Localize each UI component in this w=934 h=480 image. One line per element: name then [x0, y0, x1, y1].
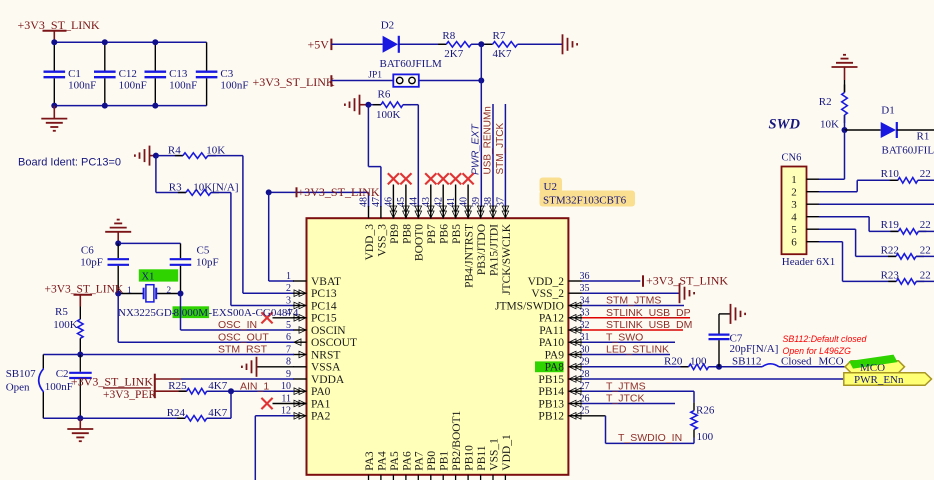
junction — [152, 39, 158, 45]
pin 39 PB3/JTDO — [480, 206, 482, 218]
wire T_SWDIO_IN — [568, 415, 605, 417]
svg-text:JP1: JP1 — [368, 71, 382, 81]
wire STM_JTCK pin 37 — [504, 104, 506, 207]
svg-text:T_SWDIO_IN: T_SWDIO_IN — [618, 432, 682, 444]
junction crystal top — [115, 240, 121, 246]
svg-text:PC15: PC15 — [311, 313, 337, 325]
svg-text:PA11: PA11 — [539, 325, 564, 337]
junction R6 — [365, 102, 371, 108]
svg-text:PA4: PA4 — [376, 451, 388, 471]
junction +3V3/VBAT — [266, 189, 272, 195]
ground (R2) — [832, 66, 858, 68]
svg-text:NRST: NRST — [311, 349, 340, 361]
pin 35 VSS_2 — [568, 292, 582, 294]
svg-text:7: 7 — [286, 344, 291, 355]
no-connect X pins top — [392, 185, 394, 219]
svg-text:10: 10 — [281, 381, 291, 392]
wire R2 to CN6 pin1 — [844, 130, 846, 179]
value STM32F103CBT6 — [540, 191, 636, 207]
pin 31 PA10 — [568, 341, 582, 343]
svg-text:35: 35 — [580, 283, 590, 294]
ground (crystal) — [105, 231, 131, 233]
ground (VSS_2) — [679, 283, 681, 303]
svg-text:R10: R10 — [881, 168, 900, 180]
ground (R6) — [359, 95, 361, 115]
pin 45 PB8 — [405, 206, 407, 218]
svg-text:OSC_OUT: OSC_OUT — [218, 331, 269, 343]
svg-text:VDD_3: VDD_3 — [364, 224, 376, 261]
svg-text:8.000M: 8.000M — [174, 307, 209, 319]
junction AIN_1 — [228, 388, 234, 394]
CN6 pin 2 — [807, 191, 820, 193]
svg-text:22: 22 — [920, 269, 931, 281]
wire CN6 pin5 to R22 — [819, 228, 856, 230]
svg-text:100nF: 100nF — [220, 80, 248, 92]
wire to R25 — [155, 390, 187, 392]
svg-text:STM_JTMS: STM_JTMS — [606, 295, 661, 307]
svg-text:PB9: PB9 — [389, 224, 401, 244]
junction R5 — [77, 352, 83, 358]
svg-text:100nF: 100nF — [45, 381, 73, 393]
pin 2 PC13 — [293, 292, 307, 294]
designator U2 — [540, 178, 563, 194]
wire STM_USB_RENUMn pin 38 — [492, 104, 494, 207]
capacitor C3 — [206, 42, 208, 70]
svg-text:PC13: PC13 — [311, 288, 337, 300]
svg-text:2: 2 — [791, 187, 797, 199]
svg-text:OSCIN: OSCIN — [311, 325, 346, 337]
junction R8/R7 — [478, 41, 484, 47]
svg-text:MCO: MCO — [819, 355, 844, 367]
pin 9 VDDA — [293, 378, 307, 380]
pin 29 PA8 — [568, 366, 582, 368]
pin 30 PA9 — [568, 354, 582, 356]
wire LED_STLINK — [582, 354, 670, 356]
svg-text:+3V3_ST_LINK: +3V3_ST_LINK — [298, 185, 380, 199]
wire STLINK_USB_DM — [582, 329, 683, 331]
svg-text:T_JTCK: T_JTCK — [606, 393, 645, 405]
svg-text:PA1: PA1 — [311, 398, 331, 410]
svg-text:JTMS/SWDIO: JTMS/SWDIO — [495, 300, 564, 312]
svg-text:10K: 10K — [820, 119, 839, 131]
wire to R3 — [155, 156, 157, 193]
svg-text:+3V3_ST_LINK: +3V3_ST_LINK — [253, 75, 335, 89]
svg-text:R22: R22 — [881, 244, 899, 256]
pin 11 PA1 — [293, 403, 307, 405]
wire R10 out — [918, 179, 934, 181]
svg-text:T_JTMS: T_JTMS — [606, 380, 646, 392]
svg-text:PA15/JTDI: PA15/JTDI — [488, 224, 500, 276]
svg-text:C12: C12 — [119, 68, 137, 80]
wire STM_JTMS — [582, 305, 684, 307]
svg-text:3: 3 — [286, 295, 291, 306]
pin 40 PB4/JNTRST — [467, 206, 469, 218]
svg-text:4K7: 4K7 — [208, 380, 227, 392]
resistor R19 — [890, 230, 898, 232]
svg-text:JTCK/SWCLK: JTCK/SWCLK — [501, 223, 513, 295]
pin 46 PB9 — [392, 206, 394, 218]
svg-text:STM32F103CBT6: STM32F103CBT6 — [543, 195, 627, 207]
svg-text:R1: R1 — [917, 131, 930, 143]
svg-text:2: 2 — [166, 286, 171, 296]
highlight MCO — [849, 355, 898, 369]
wire T_SWO — [582, 341, 675, 343]
svg-text:48: 48 — [359, 197, 370, 207]
svg-text:PB14: PB14 — [538, 386, 564, 398]
junction C7 — [716, 364, 722, 370]
svg-text:PB1: PB1 — [439, 451, 451, 471]
junction crystal right — [178, 291, 184, 297]
wire STM_RST row — [80, 354, 294, 356]
svg-text:PA0: PA0 — [311, 386, 331, 398]
pin 27 PB14 — [568, 390, 582, 392]
svg-text:10K[N/A]: 10K[N/A] — [193, 182, 238, 194]
junction crystal left — [115, 291, 121, 297]
svg-text:VBAT: VBAT — [311, 276, 341, 288]
wire R8-R7 — [471, 43, 492, 45]
pin 1 VBAT — [293, 280, 307, 282]
svg-text:2K7: 2K7 — [444, 48, 463, 60]
diode D1 — [845, 129, 881, 131]
op IC U2 body — [307, 218, 569, 475]
wire R20 to SB112 — [709, 366, 762, 368]
power port +3V3_PER — [103, 387, 151, 389]
svg-text:R19: R19 — [881, 219, 900, 231]
wire PWR_EXT vertical to pin 39 — [480, 44, 482, 207]
svg-text:STM_JTCK: STM_JTCK — [495, 123, 506, 175]
junction — [102, 39, 108, 45]
highlight X1 — [139, 269, 178, 281]
svg-text:C6: C6 — [81, 245, 94, 257]
resistor R8 — [438, 43, 446, 45]
svg-text:PB15: PB15 — [538, 374, 564, 386]
pin 5 OSCIN — [293, 329, 307, 331]
pin 36 VDD_2 — [568, 280, 582, 282]
svg-text:VDD_2: VDD_2 — [528, 276, 565, 288]
wire CN6 pin4 to R19 — [819, 216, 869, 218]
CN6 pin 4 — [807, 216, 820, 218]
svg-text:BAT60JFILM: BAT60JFILM — [882, 145, 934, 157]
wire CN6 pin2 to R10 — [819, 191, 857, 193]
pin 26 PB13 — [568, 403, 582, 405]
capacitor C1 — [53, 42, 55, 70]
power port +3V3_ST_LINK (VDD_2) — [642, 275, 644, 287]
svg-text:8: 8 — [286, 357, 291, 368]
svg-text:22: 22 — [920, 168, 931, 180]
svg-text:C5: C5 — [197, 245, 210, 257]
pin 25 PB12 — [568, 415, 582, 417]
CN6 pin 5 — [807, 228, 820, 230]
svg-text:+3V3_ST_LINK: +3V3_ST_LINK — [45, 284, 124, 296]
ground (C2) — [79, 418, 81, 428]
pin 4 PC15 — [293, 317, 307, 319]
wire bottom rail — [43, 417, 185, 419]
capacitor C5 — [180, 243, 182, 258]
wire +5V to D2 — [331, 43, 382, 45]
svg-text:11: 11 — [281, 393, 291, 404]
svg-text:5: 5 — [791, 224, 797, 236]
junction R2/D1 — [842, 127, 848, 133]
svg-text:Open: Open — [6, 381, 30, 393]
value NX3225GD-8.000M-EXS00A-CG04874 — [173, 306, 210, 318]
svg-text:R25: R25 — [168, 380, 187, 392]
svg-text:+3V3_ST_LINK: +3V3_ST_LINK — [646, 274, 728, 288]
wire crystal top — [118, 242, 180, 244]
svg-text:+5V: +5V — [308, 38, 330, 52]
svg-text:C3: C3 — [220, 68, 233, 80]
svg-text:D2: D2 — [381, 20, 394, 32]
svg-text:1: 1 — [127, 286, 132, 296]
svg-text:1: 1 — [791, 174, 797, 186]
wire D1 to R1 — [897, 129, 934, 131]
svg-text:39: 39 — [471, 197, 482, 207]
svg-text:22: 22 — [920, 219, 931, 231]
svg-text:6: 6 — [286, 332, 291, 343]
svg-text:10pF: 10pF — [196, 257, 219, 269]
CN6 pin 1 — [807, 178, 820, 180]
svg-text:SWD: SWD — [769, 117, 801, 133]
wire R6 gnd to VSS_3 pin 47 — [367, 105, 369, 167]
svg-text:PA9: PA9 — [545, 349, 565, 361]
wire R19 out — [918, 230, 934, 232]
wire to VBAT pin 1 — [268, 192, 270, 281]
svg-text:PB7: PB7 — [426, 224, 438, 244]
svg-text:SB112:Default closed: SB112:Default closed — [783, 334, 868, 344]
junction C2 bottom — [77, 415, 83, 421]
wire bottom rail — [54, 105, 206, 107]
svg-text:VDDA: VDDA — [311, 374, 345, 386]
svg-text:R7: R7 — [493, 30, 506, 42]
resistor R24 — [177, 417, 185, 419]
svg-text:PWR_ENn: PWR_ENn — [854, 374, 904, 386]
svg-text:12: 12 — [281, 406, 291, 417]
svg-text:Header 6X1: Header 6X1 — [782, 256, 835, 268]
wire R7 to ground — [518, 43, 563, 45]
resistor R2 — [844, 80, 846, 93]
svg-text:38: 38 — [483, 197, 494, 207]
svg-text:100nF: 100nF — [119, 80, 147, 92]
svg-text:+3V3_ST_LINK: +3V3_ST_LINK — [71, 375, 153, 389]
wire CN6 pin6 to R23 — [819, 241, 843, 243]
ground (R7) — [562, 34, 564, 54]
crystal X1 — [118, 293, 143, 295]
svg-text:VSS_3: VSS_3 — [376, 224, 388, 257]
svg-text:USB_RENUMn: USB_RENUMn — [483, 106, 494, 174]
power port +3V3_ST_LINK (VDD_3) — [296, 187, 298, 197]
svg-text:4: 4 — [791, 212, 797, 224]
svg-text:VSS_2: VSS_2 — [531, 288, 564, 300]
pin 48 VDD_3 — [368, 206, 370, 218]
wire CN6 pin3 out — [819, 203, 934, 205]
svg-text:44: 44 — [409, 197, 420, 207]
svg-text:OSCOUT: OSCOUT — [311, 337, 357, 349]
port PWR_ENn — [844, 373, 932, 386]
port MCO — [845, 361, 905, 373]
pin 12 PA2 — [293, 415, 307, 417]
solder bridge SB107 — [39, 369, 44, 393]
svg-text:VSS_1: VSS_1 — [488, 438, 500, 471]
wire R3 to PC14 — [211, 192, 231, 194]
resistor R25 — [179, 390, 187, 392]
svg-text:36: 36 — [580, 271, 590, 282]
resistor R22 — [888, 255, 896, 257]
svg-text:6: 6 — [791, 237, 797, 249]
resistor R7 — [485, 43, 493, 45]
svg-text:PA2: PA2 — [311, 411, 331, 423]
svg-text:22: 22 — [920, 244, 931, 256]
svg-text:PA3: PA3 — [364, 451, 376, 471]
pin 34 JTMS/SWDIO — [568, 305, 582, 307]
svg-text:R8: R8 — [442, 30, 455, 42]
no-connect X PC15 — [273, 317, 307, 319]
wire R6 to BOOT0 pin 44 — [403, 104, 418, 106]
resistor R4 — [156, 155, 183, 157]
wire SB107 left — [43, 354, 80, 356]
solder bridge SB112 — [762, 364, 779, 367]
svg-text:PB6: PB6 — [439, 224, 451, 244]
ground (R4) — [149, 146, 151, 166]
junction JP1/PWR_EXT — [478, 78, 484, 84]
svg-text:AIN_1: AIN_1 — [240, 380, 269, 392]
wire +3V3 to pin 48 — [269, 191, 369, 193]
wire PA8 to R20 — [582, 366, 689, 368]
svg-text:R26: R26 — [696, 405, 715, 417]
wire STLINK_USB_DP — [582, 317, 690, 319]
pin 6 OSCOUT — [293, 341, 307, 343]
svg-text:PA8: PA8 — [545, 362, 565, 374]
pin 28 PB15 — [568, 378, 582, 380]
svg-text:PB4/JNTRST: PB4/JNTRST — [464, 224, 476, 288]
diode D2 — [383, 36, 398, 53]
wire PA2 down — [255, 415, 294, 417]
ground (C7) — [730, 304, 732, 324]
resistor R20 — [681, 366, 689, 368]
wire VDD_2 — [582, 280, 640, 282]
svg-text:PB12: PB12 — [538, 411, 564, 423]
svg-text:PB5: PB5 — [451, 224, 463, 244]
wire VSS_2 — [582, 292, 679, 294]
wire T_JTCK — [582, 403, 675, 405]
svg-text:PB13: PB13 — [538, 398, 564, 410]
wire PWR_ENn — [582, 378, 844, 380]
svg-text:PB8: PB8 — [401, 224, 413, 244]
svg-text:100: 100 — [690, 355, 707, 367]
svg-text:STLINK_USB_DP: STLINK_USB_DP — [606, 307, 691, 319]
svg-text:20pF[N/A]: 20pF[N/A] — [730, 343, 779, 355]
svg-text:PB3/JTDO: PB3/JTDO — [476, 224, 488, 275]
wire SB112 to MCO port — [779, 366, 845, 368]
svg-text:R6: R6 — [378, 89, 391, 101]
svg-text:LED_STLINK: LED_STLINK — [606, 344, 669, 356]
svg-text:2: 2 — [286, 283, 291, 294]
resistor R23 — [888, 280, 896, 282]
svg-text:100nF: 100nF — [68, 80, 96, 92]
wire R23 out — [916, 280, 934, 282]
svg-text:4K7: 4K7 — [208, 407, 227, 419]
pin 8 VSSA — [293, 366, 307, 368]
svg-text:PA6: PA6 — [401, 451, 413, 471]
svg-text:R5: R5 — [55, 306, 68, 318]
svg-text:Closed: Closed — [781, 355, 812, 367]
svg-text:R24: R24 — [167, 407, 186, 419]
svg-text:PB2/BOOT1: PB2/BOOT1 — [451, 410, 463, 470]
svg-text:100K: 100K — [376, 109, 401, 121]
svg-text:PB10: PB10 — [464, 445, 476, 471]
svg-text:X1: X1 — [142, 272, 155, 283]
pin 3 PC14 — [293, 305, 307, 307]
pin 41 PB5 — [455, 206, 457, 218]
wire D2 to R8 — [399, 43, 447, 45]
pin 7 NRST — [293, 354, 307, 356]
svg-text:C13: C13 — [169, 68, 188, 80]
wire R24 to AIN_1 — [207, 417, 231, 419]
pin 37 JTCK/SWCLK — [504, 206, 506, 218]
svg-text:SB112: SB112 — [732, 355, 762, 367]
wire T_JTMS — [582, 390, 694, 392]
resistor R6 — [368, 104, 381, 106]
svg-text:PA5: PA5 — [389, 451, 401, 471]
wire VDDA — [155, 378, 181, 380]
svg-text:BOOT0: BOOT0 — [414, 224, 426, 261]
pin 33 PA12 — [568, 317, 582, 319]
svg-text:R3: R3 — [169, 182, 182, 194]
wire AIN_1 — [207, 390, 294, 392]
capacitor C7 — [718, 340, 720, 367]
svg-text:37: 37 — [496, 197, 507, 207]
svg-text:3: 3 — [791, 199, 797, 211]
svg-text:9: 9 — [286, 369, 291, 380]
svg-text:10pF: 10pF — [80, 257, 103, 269]
wire OSC_IN — [180, 294, 182, 331]
svg-text:T_SWO: T_SWO — [606, 331, 643, 343]
svg-text:PB11: PB11 — [476, 445, 488, 470]
capacitor C13 — [154, 42, 156, 70]
svg-text:R20: R20 — [664, 355, 683, 367]
pin 47 VSS_3 — [380, 206, 382, 218]
pin 43 PB7 — [430, 206, 432, 218]
svg-text:C1: C1 — [68, 68, 81, 80]
svg-text:+3V3_PER: +3V3_PER — [103, 389, 156, 401]
svg-text:PB0: PB0 — [426, 451, 438, 471]
ground (VSSA) — [257, 366, 294, 368]
svg-text:CN6: CN6 — [782, 153, 802, 164]
svg-text:PC14: PC14 — [311, 300, 337, 312]
wire R22 out — [916, 255, 934, 257]
capacitor C6 — [117, 243, 119, 258]
svg-text:Open for L496ZG: Open for L496ZG — [783, 346, 852, 356]
svg-text:100nF: 100nF — [169, 80, 197, 92]
junction — [51, 39, 57, 45]
pin 44 BOOT0 — [417, 206, 419, 218]
svg-text:-EXS00A-CG04874: -EXS00A-CG04874 — [209, 307, 299, 319]
svg-text:OSC_IN: OSC_IN — [218, 319, 257, 331]
junction R4 — [153, 153, 159, 159]
wire JP1 to PWR_EXT — [419, 80, 482, 82]
no-connect X PA1 — [273, 403, 307, 405]
svg-text:PA12: PA12 — [539, 313, 564, 325]
svg-text:PA7: PA7 — [414, 451, 426, 471]
wire top rail — [54, 41, 206, 43]
CN6 pin 3 — [807, 203, 820, 205]
resistor R10 — [890, 179, 898, 181]
svg-text:PA10: PA10 — [539, 337, 564, 349]
wire OSC_OUT — [117, 294, 119, 343]
svg-text:VDD_1: VDD_1 — [501, 434, 513, 471]
svg-text:D1: D1 — [881, 105, 894, 117]
svg-text:STLINK_USB_DM: STLINK_USB_DM — [606, 319, 692, 331]
svg-text:4K7: 4K7 — [493, 48, 512, 60]
pin 32 PA11 — [568, 329, 582, 331]
